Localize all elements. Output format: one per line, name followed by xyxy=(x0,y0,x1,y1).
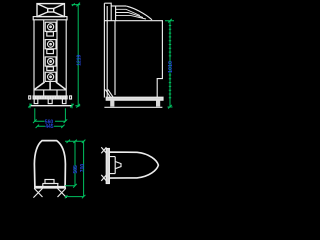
left plan inner shelf xyxy=(43,183,59,185)
port 2 xyxy=(47,49,54,53)
port 3 xyxy=(47,67,54,71)
front view top slab xyxy=(33,17,67,20)
left plan foot X left xyxy=(33,188,42,197)
front view shelf line xyxy=(34,89,66,91)
front view right foot xyxy=(62,99,66,104)
dim V1 bottom tick xyxy=(75,104,80,108)
front view base bar xyxy=(33,96,67,99)
side view cabinet back edge xyxy=(157,21,162,98)
front view left foot xyxy=(34,99,38,104)
driver 1 xyxy=(45,22,56,31)
dim V4 line xyxy=(82,140,86,197)
dim H2 right extension xyxy=(64,108,66,121)
side view left foot xyxy=(110,100,114,106)
port 1 xyxy=(47,32,54,36)
side view stand legs xyxy=(105,90,113,98)
svg-text:1219: 1219 xyxy=(77,54,83,65)
dim V2 side view ticked line xyxy=(165,19,174,109)
side view horn top xyxy=(111,5,126,7)
side view cabinet front edge xyxy=(114,21,116,95)
front view cabinet right side xyxy=(65,20,67,96)
left plan posts xyxy=(43,184,58,187)
left plan bottom plate xyxy=(35,185,65,187)
dim H0 left extension tick xyxy=(28,103,32,108)
dim V1 vertical line xyxy=(77,5,79,107)
side view base rail xyxy=(106,97,163,100)
dim V3 bottom extension xyxy=(65,184,77,188)
side view pole xyxy=(104,3,107,97)
svg-text:700: 700 xyxy=(80,164,86,173)
svg-text:585: 585 xyxy=(73,165,79,174)
front view left outrigger nub xyxy=(29,96,31,99)
side view pole cap xyxy=(104,3,111,20)
front view lower baffle stubs xyxy=(44,90,57,96)
dim H3 line xyxy=(36,125,65,128)
driver 2 xyxy=(45,40,56,49)
driver 4 xyxy=(45,72,56,81)
side view cabinet top xyxy=(104,20,163,22)
dim V4 bottom extension xyxy=(65,195,86,198)
dim H0 right extension tick xyxy=(70,103,74,108)
svg-text:445: 445 xyxy=(45,124,54,130)
right plan foot X bottom xyxy=(101,175,106,181)
right plan left plate xyxy=(106,149,109,184)
right plan foot X top xyxy=(101,147,106,153)
dim V1 top extension and tick xyxy=(72,3,81,7)
front view legs xyxy=(34,82,66,90)
dim V3 top extension line xyxy=(65,140,85,143)
front view horn box xyxy=(37,4,64,17)
dim H2 left extension xyxy=(34,108,36,121)
svg-text:1010: 1010 xyxy=(168,61,174,73)
right plan view outline xyxy=(109,152,159,178)
side view horn flare curve xyxy=(126,6,152,20)
dim V3 line xyxy=(74,141,76,186)
front view floor line xyxy=(30,105,73,107)
dim H2 line xyxy=(33,119,67,123)
side view horn back xyxy=(115,6,117,20)
side view horn inner profiles xyxy=(116,9,146,19)
left plan center bump xyxy=(45,180,54,184)
front view baffle columns xyxy=(44,20,57,82)
front view right outrigger nub xyxy=(70,96,72,99)
left plan foot X right xyxy=(58,188,67,197)
right plan throat notch xyxy=(115,162,121,169)
driver 3 xyxy=(45,57,56,66)
side view right foot xyxy=(156,100,160,106)
side view floor line xyxy=(104,106,162,108)
front view center foot xyxy=(48,99,52,104)
left plan view outline xyxy=(34,141,65,188)
front view cabinet left side xyxy=(33,20,35,96)
right plan inner line xyxy=(109,157,115,174)
